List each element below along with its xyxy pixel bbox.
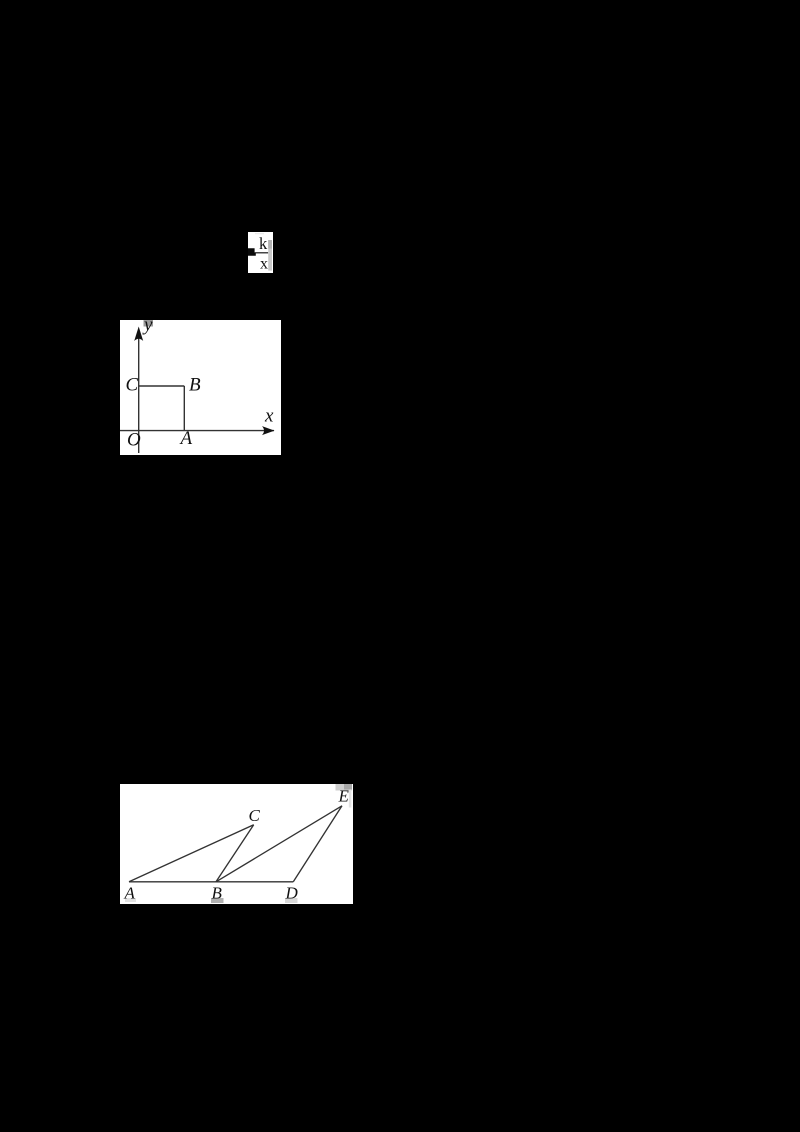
svg-text:A: A [124, 884, 136, 903]
svg-text:O: O [127, 430, 141, 451]
segment B-C [216, 825, 254, 882]
faint strip right of E [349, 790, 352, 808]
faint top edge line [255, 232, 264, 235]
segment B-E [216, 806, 342, 882]
x-axis [120, 430, 274, 432]
gray strip right [268, 240, 272, 271]
baseline A-D [129, 881, 293, 883]
gray smudge below B label [211, 898, 224, 903]
segment B-A [183, 386, 185, 431]
svg-text:x: x [264, 406, 274, 427]
y-axis [138, 332, 140, 453]
gray smudge below D label [285, 898, 298, 903]
y-axis arrowhead [134, 327, 143, 342]
svg-text:B: B [189, 375, 201, 396]
gray smudge above E label [336, 784, 353, 791]
coordinate-axes figure box [120, 320, 281, 455]
svg-text:E: E [338, 787, 350, 806]
segment C-B [139, 385, 185, 387]
black notch left [248, 248, 256, 255]
gray smudge below A label [125, 898, 136, 902]
fraction k/x box [248, 232, 273, 273]
segment D-E [293, 806, 342, 882]
svg-text:A: A [179, 428, 193, 449]
svg-text:k: k [259, 234, 268, 253]
segment A-C [129, 825, 254, 882]
svg-text:y: y [142, 320, 153, 336]
gray smudge behind y label [144, 320, 154, 327]
svg-text:x: x [260, 256, 268, 272]
svg-text:D: D [285, 884, 299, 903]
svg-text:C: C [249, 806, 261, 825]
triangles figure box [120, 784, 353, 904]
svg-text:B: B [212, 884, 223, 903]
svg-text:C: C [126, 375, 139, 396]
x-axis arrowhead [262, 426, 275, 435]
fraction bar [255, 252, 268, 253]
